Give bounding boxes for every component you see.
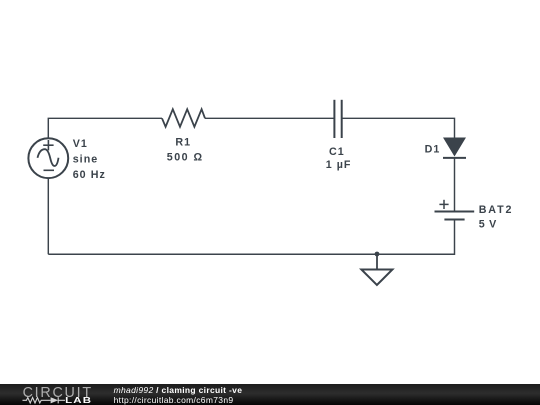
BAT2 labels — [479, 204, 514, 231]
CircuitLab logo — [21, 384, 106, 405]
ground stub wire — [376, 254, 378, 270]
BAT2 positive plate — [435, 211, 475, 213]
BAT2 negative plate — [444, 219, 464, 221]
V1 minus sign — [44, 169, 55, 171]
diode D1 triangle — [444, 138, 465, 156]
C1 labels — [326, 146, 352, 171]
junction node dot — [375, 252, 380, 257]
D1 cathode bar — [443, 157, 466, 159]
R1 labels — [167, 137, 204, 164]
wire right bottom (BAT2 minus to bottom corner) — [48, 220, 454, 255]
svg-text:500 Ω: 500 Ω — [167, 152, 204, 164]
wire top-left horizontal (V1 top to R1) — [48, 118, 162, 138]
wire top right (C1 right plate to corner, down to D1) — [342, 118, 455, 138]
voltage source V1 circle — [28, 138, 68, 178]
svg-text:D1: D1 — [425, 143, 441, 155]
V1 plus sign — [43, 140, 53, 150]
wire right middle (D1 cathode to BAT2 plus) — [454, 158, 456, 212]
attribution text — [114, 385, 243, 405]
wire left bottom (V1 bottom to bottom wire) — [47, 178, 49, 254]
svg-text:60 Hz: 60 Hz — [73, 169, 106, 181]
svg-text:1 µF: 1 µF — [326, 159, 352, 171]
wire top middle (R1 to C1 left plate) — [205, 117, 334, 119]
svg-text:R1: R1 — [175, 137, 191, 149]
svg-text:V1: V1 — [73, 138, 88, 150]
resistor R1 zigzag — [162, 109, 205, 127]
V1 sine wave — [38, 149, 59, 166]
battery BAT2 plus sign — [439, 200, 448, 209]
svg-text:LAB: LAB — [65, 396, 92, 405]
V1 labels — [73, 138, 106, 181]
svg-text:C1: C1 — [329, 146, 345, 158]
svg-text:BAT2: BAT2 — [479, 204, 514, 216]
capacitor C1 plates — [334, 100, 341, 138]
ground symbol triangle — [361, 270, 392, 286]
footer bar — [0, 384, 540, 405]
svg-text:sine: sine — [73, 154, 99, 166]
svg-text:5 V: 5 V — [479, 219, 497, 231]
